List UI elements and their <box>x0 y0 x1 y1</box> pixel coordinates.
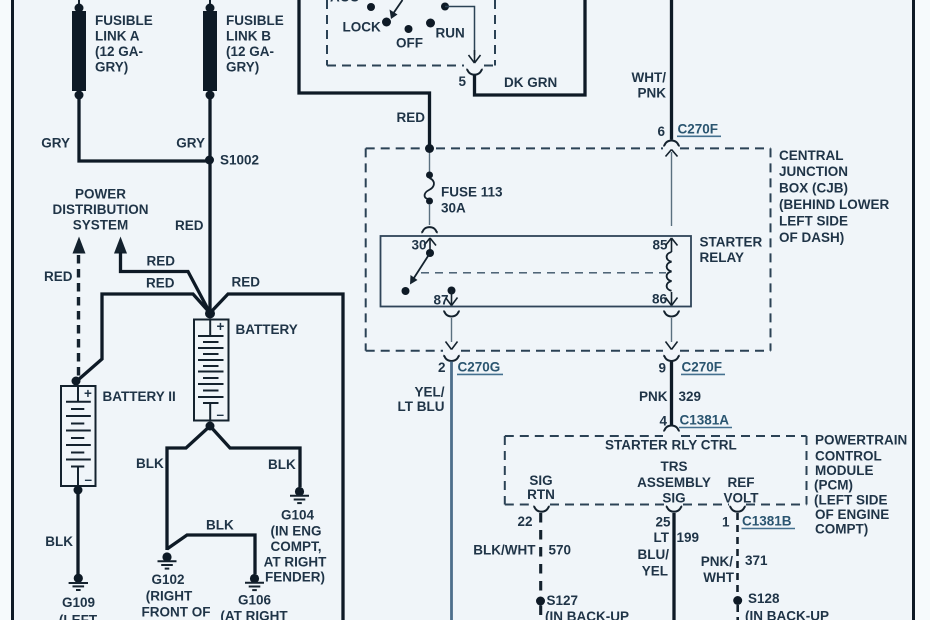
svg-text:BLK: BLK <box>136 456 164 471</box>
label FUSE 113 30A <box>441 185 503 216</box>
wire 86 to C270F <box>671 318 673 342</box>
wire RED feed from top to CJB <box>299 0 430 148</box>
svg-text:C270F: C270F <box>678 121 719 136</box>
svg-text:G106: G106 <box>238 593 272 608</box>
relay switch contact node (30) <box>426 249 434 257</box>
label G106 (AT RIGHT <box>220 593 288 620</box>
connector C270F cup (top) <box>663 141 679 146</box>
connector C270F cup (bottom) <box>663 356 679 361</box>
svg-text:(IN ENG: (IN ENG <box>270 524 321 539</box>
ground G109 <box>69 574 88 590</box>
ground G106 <box>245 574 264 590</box>
wire to relay pin 85 <box>671 152 673 226</box>
svg-text:FENDER): FENDER) <box>265 570 325 585</box>
svg-text:BOX (CJB): BOX (CJB) <box>779 181 848 196</box>
svg-text:(IN BACK-UP: (IN BACK-UP <box>545 609 629 620</box>
label connector C270F (bottom) <box>681 360 725 375</box>
relay internal dashed link <box>421 272 666 274</box>
wire PNK 329 <box>670 362 673 427</box>
label YEL/ LT BLU <box>398 384 445 414</box>
svg-text:ASSEMBLY: ASSEMBLY <box>637 475 711 490</box>
label POWER DISTRIBUTION SYSTEM <box>53 187 149 233</box>
battery BATTERY II <box>61 377 96 488</box>
svg-text:STARTER RLY CTRL: STARTER RLY CTRL <box>605 438 737 453</box>
svg-text:BATTERY: BATTERY <box>236 322 298 337</box>
ground G102 <box>158 552 177 568</box>
svg-text:–: – <box>85 472 93 487</box>
svg-text:30A: 30A <box>441 201 466 216</box>
svg-text:CENTRAL: CENTRAL <box>779 148 844 163</box>
svg-text:RED: RED <box>146 276 175 291</box>
connector C270G cup <box>443 356 459 361</box>
svg-text:OF ENGINE: OF ENGINE <box>815 507 889 522</box>
svg-text:WHT/: WHT/ <box>632 70 667 85</box>
node OFF contact <box>405 25 413 33</box>
relay pin 86 arrow out <box>666 292 678 306</box>
wire BLK G102 to G106 <box>167 535 255 574</box>
svg-text:VOLT: VOLT <box>724 491 760 506</box>
wire 87 to C270G <box>451 318 453 342</box>
wire WHT/PNK from top <box>670 0 673 140</box>
central junction box CJB (dashed) <box>366 148 771 350</box>
svg-text:REF: REF <box>728 475 755 490</box>
svg-text:POWER: POWER <box>75 187 126 202</box>
wire BLK battery to G102 <box>167 426 210 550</box>
wire RED from battery junction to arrow <box>121 252 211 313</box>
border frame <box>0 0 11 620</box>
svg-text:DISTRIBUTION: DISTRIBUTION <box>53 202 149 217</box>
wire below S128 <box>736 605 739 620</box>
svg-text:(BEHIND LOWER: (BEHIND LOWER <box>779 197 889 212</box>
svg-text:OF DASH): OF DASH) <box>779 230 844 245</box>
svg-text:–: – <box>217 407 225 422</box>
label CENTRAL JUNCTION BOX (CJB) (BEHIND LOWER LEFT SIDE OF DASH) <box>779 148 889 245</box>
svg-text:(LEFT SIDE: (LEFT SIDE <box>814 493 888 508</box>
svg-text:87: 87 <box>433 293 448 308</box>
label STARTER RELAY <box>700 235 763 266</box>
svg-text:S1002: S1002 <box>220 153 259 168</box>
svg-text:(IN BACK-UP: (IN BACK-UP <box>745 609 829 620</box>
wire YEL/LT BLU <box>450 362 453 620</box>
svg-text:22: 22 <box>517 514 532 529</box>
arrow to power distribution (left, dashed RED) <box>73 237 86 254</box>
wire below S127 <box>539 606 542 620</box>
svg-text:GRY: GRY <box>41 136 70 151</box>
svg-text:GRY): GRY) <box>95 60 128 75</box>
label connector C1381A <box>679 413 732 428</box>
node RED at CJB edge <box>425 144 434 153</box>
relay pin 87 arrow out <box>446 291 458 306</box>
svg-text:371: 371 <box>745 553 768 568</box>
node START contact <box>441 3 449 11</box>
node ACC contact <box>367 3 375 11</box>
svg-text:RTN: RTN <box>527 487 555 502</box>
svg-text:BLK: BLK <box>268 457 296 472</box>
svg-text:RED: RED <box>396 110 425 125</box>
svg-text:C270F: C270F <box>682 360 723 375</box>
svg-text:2: 2 <box>438 360 446 375</box>
svg-text:DK GRN: DK GRN <box>504 75 557 90</box>
node LOCK contact <box>382 18 391 27</box>
wire GRY from link A <box>79 95 210 161</box>
svg-text:LT: LT <box>654 530 670 545</box>
svg-text:RED: RED <box>175 218 204 233</box>
svg-text:TRS: TRS <box>661 459 688 474</box>
svg-text:9: 9 <box>658 361 666 376</box>
svg-text:BLU/: BLU/ <box>638 547 670 562</box>
wire DK GRN <box>475 0 586 95</box>
relay pin 87 node <box>448 287 456 295</box>
wire BLK/WHT 570 (dashed) <box>539 513 542 598</box>
svg-text:329: 329 <box>679 389 702 404</box>
svg-text:FUSIBLE: FUSIBLE <box>95 13 153 28</box>
svg-text:S127: S127 <box>547 593 579 608</box>
svg-text:YEL: YEL <box>642 564 668 579</box>
svg-text:POWERTRAIN: POWERTRAIN <box>815 433 907 448</box>
label FUSIBLE LINK B (12 GA-GRY) <box>226 13 284 75</box>
arrow below C270F <box>666 150 678 157</box>
label G102 (RIGHT FRONT OF <box>142 572 211 620</box>
pin 25 cup <box>666 506 682 511</box>
svg-text:RELAY: RELAY <box>700 250 745 265</box>
svg-text:C1381B: C1381B <box>742 514 792 529</box>
arrow to power distribution (right) <box>114 237 127 254</box>
relay pin 30 entry cup <box>421 227 437 232</box>
ignition switch (dashed housing, cut off at top) <box>327 0 495 66</box>
svg-text:OFF: OFF <box>396 36 423 51</box>
svg-text:570: 570 <box>549 543 572 558</box>
svg-text:SIG: SIG <box>529 473 552 488</box>
svg-text:YEL/: YEL/ <box>414 384 444 399</box>
pin 1 cup <box>729 506 745 511</box>
splice S127 <box>536 597 545 606</box>
svg-text:86: 86 <box>652 292 668 307</box>
node battery negative junction <box>206 422 215 431</box>
wire BLK battery to G104 <box>210 426 300 487</box>
svg-text:MODULE: MODULE <box>815 463 874 478</box>
wire from START contact to pin 5 <box>445 7 475 56</box>
svg-text:C1381A: C1381A <box>680 413 730 428</box>
svg-text:FUSE 113: FUSE 113 <box>441 185 503 200</box>
wire RED dashed to battery II <box>77 255 80 378</box>
svg-text:STARTER: STARTER <box>700 235 763 250</box>
svg-text:CONTROL: CONTROL <box>815 449 882 464</box>
ground G104 <box>290 487 309 503</box>
label G104 (IN ENG COMPT, AT RIGHT FENDER) <box>264 507 327 584</box>
pin 22 cup <box>533 506 549 511</box>
node RUN contact <box>426 19 435 28</box>
splice S1002 <box>205 156 214 165</box>
splice S128 <box>733 596 742 605</box>
svg-text:BATTERY II: BATTERY II <box>103 389 176 404</box>
starter relay box <box>381 236 692 307</box>
svg-text:PNK: PNK <box>639 389 668 404</box>
svg-text:RED: RED <box>147 254 176 269</box>
svg-text:G104: G104 <box>281 507 315 522</box>
svg-text:LINK B: LINK B <box>226 29 271 44</box>
label TRS ASSEMBLY SIG <box>637 459 711 506</box>
powertrain control module PCM (dashed) <box>505 436 807 505</box>
svg-text:25: 25 <box>655 515 671 530</box>
svg-text:COMPT,: COMPT, <box>270 539 321 554</box>
wire LT BLU/YEL 199 <box>672 513 675 620</box>
svg-text:GRY: GRY <box>176 136 205 151</box>
svg-text:LOCK: LOCK <box>343 20 381 35</box>
svg-text:SIG: SIG <box>662 491 685 506</box>
fusible link A <box>72 0 86 100</box>
svg-text:+: + <box>217 319 225 334</box>
pin 5 connector cup <box>466 69 482 74</box>
svg-text:LT BLU: LT BLU <box>398 399 445 414</box>
svg-text:(PCM): (PCM) <box>814 478 853 493</box>
svg-text:PNK: PNK <box>637 86 666 101</box>
relay switch throw node <box>402 287 410 295</box>
label connector C1381B <box>742 514 796 529</box>
label G109 (LEFT <box>59 595 98 620</box>
svg-text:S128: S128 <box>748 591 780 606</box>
label POWERTRAIN CONTROL MODULE (PCM) (LEFT SIDE OF ENGINE COMPT) <box>814 433 907 537</box>
relay pin 30 arrow <box>424 238 436 252</box>
relay switch arm <box>410 253 430 285</box>
svg-text:BLK: BLK <box>45 534 73 549</box>
svg-text:FRONT OF: FRONT OF <box>142 605 211 620</box>
fusible link B <box>203 0 217 100</box>
svg-text:JUNCTION: JUNCTION <box>779 164 848 179</box>
node battery II negative <box>74 486 83 495</box>
svg-text:GRY): GRY) <box>226 60 259 75</box>
relay coil <box>667 252 672 291</box>
svg-text:1: 1 <box>722 515 730 530</box>
wire RED from battery junction to bottom edge <box>210 294 343 620</box>
svg-text:(12 GA-: (12 GA- <box>95 44 143 59</box>
label REF VOLT <box>724 475 760 506</box>
svg-text:(RIGHT: (RIGHT <box>146 588 193 603</box>
svg-text:G109: G109 <box>62 595 95 610</box>
label connector C270G <box>457 360 503 375</box>
svg-text:BLK/WHT: BLK/WHT <box>473 543 536 558</box>
fuse F113 30A <box>425 153 434 225</box>
label FUSIBLE LINK A (12 GA-GRY) <box>95 13 153 75</box>
battery BATTERY <box>194 319 229 422</box>
svg-text:LINK A: LINK A <box>95 29 140 44</box>
wire RED from link B down to battery junction <box>208 95 211 313</box>
label SIG RTN <box>527 473 555 502</box>
svg-text:COMPT): COMPT) <box>815 522 868 537</box>
svg-text:PNK/: PNK/ <box>701 554 734 569</box>
wire RED from battery junction to battery II <box>78 294 210 380</box>
svg-text:RED: RED <box>44 269 73 284</box>
svg-text:30: 30 <box>411 238 426 253</box>
svg-text:5: 5 <box>458 74 466 89</box>
svg-text:SYSTEM: SYSTEM <box>73 218 129 233</box>
arrow into pin 5 <box>469 50 481 63</box>
relay pin 87 exit cup <box>443 311 459 316</box>
relay pin 86 exit cup <box>663 311 679 316</box>
label connector C270F (top) <box>677 121 721 136</box>
svg-text:199: 199 <box>677 530 700 545</box>
svg-text:G102: G102 <box>151 572 184 587</box>
relay pin 85 arrow <box>666 238 678 252</box>
svg-text:(12 GA-: (12 GA- <box>226 44 274 59</box>
svg-text:LEFT SIDE: LEFT SIDE <box>779 213 848 228</box>
svg-text:RUN: RUN <box>436 26 465 41</box>
label WHT/PNK <box>632 70 667 101</box>
connector C1381A cup <box>663 426 679 431</box>
arrow into C270F (bottom) <box>666 342 678 350</box>
svg-text:ACC: ACC <box>330 0 359 5</box>
wire PNK/WHT 371 (dashed) <box>736 513 739 597</box>
svg-text:+: + <box>84 386 92 401</box>
svg-text:C270G: C270G <box>458 360 501 375</box>
wire BLK battery II to G109 <box>76 490 79 578</box>
svg-text:(LEFT: (LEFT <box>59 612 98 620</box>
svg-text:RED: RED <box>232 275 261 290</box>
svg-text:WHT: WHT <box>703 570 734 585</box>
node battery junction <box>205 309 215 319</box>
svg-text:FUSIBLE: FUSIBLE <box>226 13 284 28</box>
arrow into C270G <box>446 342 458 350</box>
svg-text:AT RIGHT: AT RIGHT <box>264 555 327 570</box>
svg-text:6: 6 <box>657 124 665 139</box>
switch wiper arm <box>390 0 403 19</box>
svg-text:(AT RIGHT: (AT RIGHT <box>220 609 288 620</box>
svg-text:BLK: BLK <box>206 518 234 533</box>
